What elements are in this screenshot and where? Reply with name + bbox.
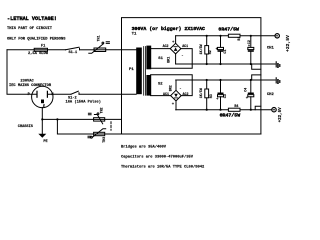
- resistor R4: [228, 108, 240, 111]
- svg-text:ONLY FOR QUALIFIED PERSONS: ONLY FOR QUALIFIED PERSONS: [7, 37, 66, 41]
- junction dots + rail: [206, 35, 208, 37]
- wire to transformer primary: [106, 49, 137, 51]
- svg-text:R4: R4: [234, 105, 238, 109]
- capacitor C3: [220, 80, 222, 93]
- wire to primary bottom: [79, 93, 136, 95]
- svg-text:1K/5W: 1K/5W: [199, 43, 204, 54]
- CH1 + rail: [176, 35, 229, 37]
- big enclosure box: [122, 18, 261, 134]
- svg-text:CH1: CH1: [267, 47, 275, 51]
- svg-text:+22,5V: +22,5V: [285, 35, 291, 52]
- CH2 0V rail: [176, 79, 276, 81]
- svg-text:AC2: AC2: [183, 92, 189, 96]
- fuse F1: [34, 48, 47, 51]
- terminal CH2 +: [272, 108, 276, 112]
- chassis wire to TH2: [42, 118, 93, 120]
- S1 loop wires: [151, 48, 171, 50]
- svg-text:16A (150A Pulse): 16A (150A Pulse): [66, 99, 101, 104]
- svg-text:230VAC: 230VAC: [20, 80, 34, 84]
- svg-text:P: P: [28, 93, 30, 97]
- primary winding P1: [136, 48, 142, 95]
- secondary winding S2: [146, 75, 151, 96]
- BR2 - wire up: [175, 80, 177, 90]
- svg-text:C4: C4: [244, 88, 248, 92]
- svg-text:Capacitors are 33000-47000uF/3: Capacitors are 33000-47000uF/35V: [121, 155, 194, 160]
- svg-text:N: N: [51, 93, 53, 97]
- BR2 + wire down: [175, 101, 177, 110]
- wire: [80, 49, 95, 51]
- thermistor TH1: [94, 48, 106, 52]
- BR1 - wire down: [175, 54, 177, 64]
- svg-text:TH2: TH2: [99, 107, 103, 113]
- CH1 0V rail: [176, 63, 276, 65]
- svg-text:+: +: [216, 98, 219, 102]
- resistor R1: [228, 34, 240, 37]
- earth vertical wire: [41, 107, 43, 133]
- terminal CH1 +: [275, 34, 279, 38]
- svg-text:BR2: BR2: [170, 85, 174, 91]
- svg-text:0R47/5W: 0R47/5W: [220, 112, 241, 118]
- capacitor C2: [250, 36, 252, 48]
- svg-text:R1: R1: [237, 37, 241, 41]
- svg-text:T1: T1: [132, 33, 137, 37]
- capacitor C4: [250, 80, 252, 93]
- BR1 + wire up: [175, 36, 177, 44]
- wire TH2 to box edge: [105, 118, 122, 120]
- IEC mains connector: [32, 86, 53, 107]
- svg-text:-: -: [179, 87, 181, 91]
- svg-text:F1: F1: [41, 44, 45, 48]
- svg-text:IEC MAINS CONNECTOR: IEC MAINS CONNECTOR: [9, 84, 52, 88]
- bridge BR1: [170, 43, 181, 54]
- svg-text:-: -: [181, 54, 183, 58]
- svg-text:C2: C2: [248, 40, 252, 44]
- svg-text:Thermistors are 10R/5A TYPE CL: Thermistors are 10R/5A TYPE CL60/S042: [121, 165, 205, 170]
- thermistor TH2: [94, 118, 105, 121]
- resistor R2 bleeder: [206, 36, 208, 64]
- svg-text:S1: S1: [158, 57, 163, 61]
- svg-text:-LETHAL VOLTAGE!: -LETHAL VOLTAGE!: [7, 16, 57, 22]
- wire down to TH3: [57, 119, 93, 134]
- svg-text:AC1: AC1: [163, 92, 169, 96]
- svg-text:CH2: CH2: [267, 93, 275, 97]
- capacitor C1: [220, 36, 222, 48]
- ground PE: [38, 134, 46, 138]
- svg-text:+: +: [246, 97, 249, 101]
- junction E: [41, 118, 43, 120]
- terminal CH1 gnd: [275, 62, 277, 67]
- svg-text:C3: C3: [224, 94, 228, 98]
- svg-text:0R47/5W: 0R47/5W: [218, 27, 239, 33]
- svg-text:AC1: AC1: [182, 44, 188, 48]
- svg-text:THIS PART OF CIRCUIT: THIS PART OF CIRCUIT: [7, 27, 53, 31]
- left vertical wire: [7, 50, 32, 94]
- svg-text:+: +: [172, 103, 175, 107]
- resistor R3 bleeder: [206, 80, 208, 110]
- svg-text:300VA (or bigger) 2X18VAC: 300VA (or bigger) 2X18VAC: [132, 26, 205, 32]
- svg-text:R2: R2: [209, 50, 213, 54]
- svg-text:Bridges are 35A/400V: Bridges are 35A/400V: [121, 144, 167, 149]
- wire N to switch: [53, 93, 71, 95]
- svg-text:2,5A SLOW: 2,5A SLOW: [28, 52, 49, 56]
- thermistor TH3: [94, 132, 105, 135]
- svg-text:P1: P1: [129, 68, 134, 72]
- svg-text:TH3: TH3: [102, 137, 106, 143]
- terminal CH2 gnd: [275, 78, 277, 83]
- svg-text:BR1: BR1: [168, 57, 172, 63]
- svg-text:PE: PE: [43, 140, 48, 144]
- wire TH3 to box corner (box bottom): [105, 133, 261, 135]
- bottom notes: [121, 144, 205, 169]
- wire hop at box edge: [252, 75, 261, 80]
- svg-text:S1-1: S1-1: [69, 51, 78, 55]
- warning text: [7, 16, 66, 42]
- wire: [48, 49, 66, 51]
- CH2 + rail: [176, 109, 229, 111]
- svg-text:R3: R3: [210, 94, 214, 98]
- wire hop at box edge: [255, 106, 261, 110]
- switch S1-2: [71, 91, 78, 94]
- svg-text:CHASSIS: CHASSIS: [18, 125, 34, 129]
- dashed link TH2-TH3: [110, 122, 112, 130]
- svg-text:1K/5W: 1K/5W: [199, 87, 204, 98]
- svg-text:AC2: AC2: [163, 44, 169, 48]
- wire hop at box edge: [252, 64, 261, 69]
- junction: [56, 118, 58, 120]
- wire mains top left: [7, 49, 34, 51]
- svg-text:S2: S2: [158, 82, 163, 86]
- secondary winding S1: [146, 46, 151, 70]
- switch S1-1: [66, 47, 80, 50]
- svg-text:TH1: TH1: [97, 35, 101, 41]
- svg-text:+22,5V: +22,5V: [279, 107, 283, 123]
- transformer T1: [129, 68, 134, 72]
- bridge BR2: [171, 90, 182, 101]
- svg-text:C1: C1: [224, 49, 228, 53]
- S2 loop wires: [151, 95, 171, 97]
- core: [144, 47, 146, 96]
